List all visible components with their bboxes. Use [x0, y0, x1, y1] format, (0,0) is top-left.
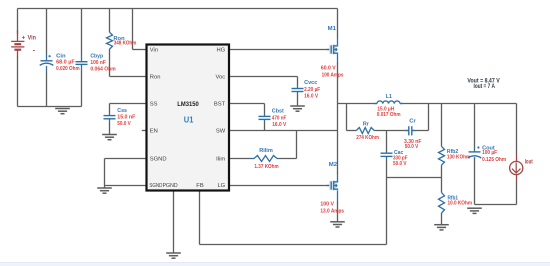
wire M1 drain drop — [337, 9, 339, 38]
svg-text:16.0 V: 16.0 V — [304, 93, 318, 99]
wire Rfb2 bottom lead — [441, 165, 443, 177]
svg-text:PGND: PGND — [163, 183, 178, 189]
wire LG to M2 gate — [229, 185, 330, 187]
label Vout annotation — [467, 78, 499, 84]
wire Cvcc to ground — [297, 95, 299, 107]
svg-text:EN: EN — [150, 129, 158, 135]
svg-text:HG: HG — [216, 48, 225, 54]
wire Ron top lead — [109, 9, 111, 33]
pin EN — [150, 129, 158, 135]
wire Iout top lead — [516, 104, 518, 155]
wire Css to ground — [109, 122, 111, 135]
svg-text:16.0 V: 16.0 V — [272, 122, 286, 128]
pin PGND — [163, 183, 178, 189]
svg-text:348 KOhm: 348 KOhm — [114, 41, 137, 47]
label Rfb2 name — [447, 149, 459, 155]
wire SGND2 — [105, 186, 147, 189]
capacitor Cin — [40, 54, 54, 72]
capacitor Cvcc — [292, 86, 304, 95]
label Rr name — [363, 122, 370, 128]
label Cvcc rating — [304, 93, 318, 99]
pin SGND2 — [149, 183, 162, 189]
label + Vin — [22, 35, 37, 42]
pin BST — [214, 102, 226, 108]
label M2 name — [329, 162, 338, 168]
label Ron name — [113, 36, 125, 42]
svg-text:+: + — [22, 35, 26, 42]
ground Cout — [467, 208, 482, 213]
svg-text:0.064 Ohm: 0.064 Ohm — [90, 67, 115, 73]
pin Ilim — [216, 157, 225, 163]
ground Css — [102, 135, 117, 140]
label Cvcc value — [304, 87, 321, 93]
svg-text:1.37 KOhm: 1.37 KOhm — [254, 164, 278, 170]
wire M1 drain blue stub — [337, 37, 339, 45]
svg-text:100 V: 100 V — [320, 202, 334, 208]
label Css value — [117, 114, 136, 120]
svg-text:0.017 Ohm: 0.017 Ohm — [377, 112, 401, 118]
label Cac name — [394, 150, 404, 156]
label Cout value — [482, 150, 498, 156]
label Cout name — [482, 145, 495, 151]
ground Rfb1 — [434, 225, 449, 230]
label L1 value — [377, 106, 394, 112]
svg-text:Css: Css — [117, 108, 127, 114]
svg-text:2.20 µF: 2.20 µF — [304, 87, 321, 93]
svg-text:Vin: Vin — [28, 35, 37, 42]
svg-text:Cbst: Cbst — [272, 109, 284, 115]
resistor Rilim — [250, 156, 279, 162]
resistor Rfb1 — [439, 193, 445, 214]
wire Cbyp bottom lead — [81, 71, 83, 107]
label M1 name — [328, 26, 337, 32]
wire Rr to Cr — [374, 130, 409, 132]
wire Rfb2 top lead — [441, 104, 443, 147]
capacitor Cbyp — [76, 55, 88, 71]
wire Rfb1 top lead — [441, 178, 443, 193]
label Rilim name — [259, 148, 273, 154]
inductor L1 — [374, 101, 403, 104]
wire M2 source blue stub — [337, 191, 339, 203]
svg-text:470 nF: 470 nF — [272, 116, 287, 122]
svg-text:SS: SS — [150, 102, 158, 108]
label Cbyp esr — [90, 67, 115, 73]
transistor M1 — [327, 45, 338, 55]
wire Iout bottom lead — [516, 181, 518, 205]
label Cac rating — [393, 161, 407, 167]
capacitor Css — [104, 113, 116, 123]
svg-text:0.020 Ohm: 0.020 Ohm — [56, 66, 80, 72]
svg-text:Voc: Voc — [216, 75, 226, 81]
wire comp branch left — [347, 104, 357, 131]
svg-text:Cvcc: Cvcc — [304, 80, 318, 86]
label Css rating — [117, 121, 131, 127]
svg-text:50.0 V: 50.0 V — [405, 144, 419, 150]
svg-text:100 nF: 100 nF — [90, 60, 106, 66]
wire Ron to Ron pin — [110, 49, 147, 76]
wire FB tee to divider — [387, 177, 442, 179]
transistor M2 — [327, 181, 338, 191]
wire output main — [338, 103, 517, 105]
svg-text:274 KOhm: 274 KOhm — [356, 135, 379, 141]
wire battery top lead — [17, 9, 19, 35]
capacitor Cout — [468, 150, 482, 159]
label Cbyp name — [90, 53, 103, 59]
wire top input rail — [18, 8, 338, 10]
wire PGND drop — [173, 191, 175, 254]
wire M2 drain blue stub — [337, 174, 339, 182]
ground SGND — [97, 188, 112, 193]
wire M1 source to SW node — [337, 64, 339, 131]
label Rfb1 name — [448, 195, 459, 201]
label Iout name — [525, 159, 533, 165]
capacitor Cbst — [259, 114, 271, 123]
svg-text:100 µF: 100 µF — [482, 150, 498, 156]
wire Cr to branch right — [412, 104, 429, 131]
svg-text:BST: BST — [214, 102, 226, 108]
label Cr value — [404, 139, 422, 145]
pin FB — [196, 183, 204, 189]
svg-text:Ron: Ron — [150, 75, 161, 81]
label Cout esr — [482, 157, 506, 163]
ground M2 — [330, 222, 345, 227]
wire Cout bottom lead — [474, 158, 476, 205]
wire Cin top lead — [46, 9, 48, 55]
svg-text:10.0 KOhm: 10.0 KOhm — [448, 201, 473, 207]
pin SW — [216, 129, 226, 135]
label Cbst rating — [272, 122, 286, 128]
svg-text:50.0 V: 50.0 V — [117, 121, 131, 127]
wire bottom input rail — [18, 106, 82, 108]
svg-text:Vin: Vin — [150, 48, 158, 54]
svg-text:Rr: Rr — [363, 122, 370, 128]
wire SGND — [105, 159, 147, 186]
svg-text:SGND: SGND — [150, 157, 167, 163]
wire Rfb1 to ground — [441, 213, 443, 225]
label Rr value — [356, 135, 379, 141]
label Rfb1 value — [448, 201, 473, 207]
label Cbst value — [272, 116, 287, 122]
pin LG — [217, 183, 225, 189]
wire Cin bottom lead — [46, 72, 48, 107]
pin Voc — [216, 75, 226, 81]
svg-text:Cr: Cr — [409, 119, 416, 125]
label U1 — [184, 116, 194, 125]
label Cbst name — [272, 109, 284, 115]
label Cout plus dot — [477, 146, 479, 148]
wire SS to Css — [110, 104, 147, 113]
label M2 rating1 — [320, 202, 334, 208]
svg-text:13.0 Amps: 13.0 Amps — [320, 208, 344, 214]
svg-text:Cin: Cin — [56, 53, 66, 59]
capacitor Cac — [381, 152, 393, 160]
label Cin esr — [56, 66, 80, 72]
wire Cout top lead — [474, 104, 476, 151]
label M1 rating1 — [321, 66, 336, 72]
pin HG — [216, 48, 225, 54]
svg-text:U1: U1 — [184, 116, 194, 125]
svg-text:SW: SW — [216, 129, 226, 135]
svg-text:50.0 V: 50.0 V — [393, 161, 407, 167]
wire Rilim to SW — [279, 131, 297, 159]
svg-text:15.0 nF: 15.0 nF — [117, 114, 136, 120]
svg-text:LM3150: LM3150 — [177, 101, 199, 108]
wire EN stub — [142, 130, 147, 132]
label Cr name — [409, 119, 416, 125]
capacitor Cr — [405, 126, 415, 135]
label L1 name — [386, 94, 393, 100]
label Iout annotation — [474, 84, 496, 90]
wire Cbyp top lead — [81, 9, 83, 56]
pin Vin — [150, 48, 158, 54]
wire M2 drain — [337, 131, 339, 175]
resistor Rfb2 — [439, 146, 445, 165]
svg-text:Cbyp: Cbyp — [90, 53, 103, 59]
label Cac value — [393, 156, 408, 162]
svg-text:60.0 V: 60.0 V — [321, 66, 336, 72]
wire output bottom — [475, 204, 517, 206]
label L1 esr — [377, 112, 401, 118]
svg-text:M2: M2 — [329, 162, 338, 168]
svg-text:L1: L1 — [386, 94, 393, 100]
label Cin plus dot — [49, 55, 51, 57]
ground Cvcc — [290, 106, 305, 111]
label Cbyp value — [90, 60, 106, 66]
pin Ron — [150, 75, 161, 81]
bottom scrollbar strip — [0, 262, 550, 266]
label Css name — [117, 108, 127, 114]
wire Cac top lead — [386, 131, 388, 153]
svg-text:Ilim: Ilim — [216, 157, 225, 163]
wire Ilim left — [229, 158, 250, 160]
ground PGND — [166, 253, 181, 258]
wire HG to M1 gate — [229, 49, 330, 51]
ground input — [55, 109, 70, 114]
svg-text:Iout = 7 A: Iout = 7 A — [474, 84, 496, 90]
wire battery bottom lead — [17, 57, 19, 107]
svg-text:M1: M1 — [328, 26, 337, 32]
svg-text:Iout: Iout — [525, 159, 533, 165]
wire FB riser — [386, 160, 388, 245]
svg-text:SGND: SGND — [149, 183, 162, 189]
label Cr rating — [405, 144, 419, 150]
label M2 rating2 — [320, 208, 344, 214]
voltage source Vin (battery) — [11, 30, 24, 57]
label Cin value — [56, 60, 75, 66]
op-amp U1 LM3150 body — [147, 45, 230, 191]
label Ron value — [114, 41, 137, 47]
wire M2 source to ground — [337, 203, 339, 222]
svg-text:Rilim: Rilim — [259, 148, 273, 154]
resistor Rr — [356, 128, 374, 134]
label Rilim value — [254, 164, 278, 170]
wire FB drop — [199, 191, 201, 245]
label M1 rating2 — [322, 72, 344, 78]
wire SW — [229, 130, 338, 132]
svg-text:130 KOhm: 130 KOhm — [447, 155, 470, 161]
wire Vin feed — [133, 9, 147, 50]
svg-text:0.125 Ohm: 0.125 Ohm — [482, 157, 506, 163]
wire FB bottom rail — [200, 244, 387, 246]
label battery minus — [33, 46, 36, 55]
label Rfb2 value — [447, 155, 470, 161]
label Cvcc name — [304, 80, 318, 86]
wire Voc — [229, 77, 298, 86]
svg-text:LG: LG — [217, 183, 225, 189]
resistor Ron — [107, 32, 113, 49]
current source Iout — [510, 154, 523, 181]
pin SGND — [150, 157, 167, 163]
svg-text:FB: FB — [196, 183, 204, 189]
wire M1 source blue stub — [337, 54, 339, 64]
label LM3150 — [177, 101, 199, 108]
wire BST — [229, 104, 265, 114]
label Cin name — [56, 53, 66, 59]
pin SS — [150, 102, 158, 108]
svg-text:100 Amps: 100 Amps — [322, 72, 344, 78]
wire Cbst to SW — [264, 122, 266, 131]
svg-text:68.0 µF: 68.0 µF — [56, 60, 75, 66]
